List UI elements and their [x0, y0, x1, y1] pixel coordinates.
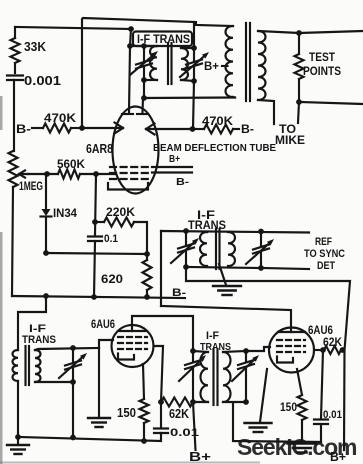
svg-text:DET: DET	[317, 260, 335, 272]
label B+ right	[330, 450, 346, 464]
trimmer cap T3 primary	[171, 231, 199, 267]
svg-text:62K: 62K	[323, 337, 343, 349]
cathode 6AR8	[108, 183, 148, 190]
transformer T5 secondary winding	[223, 352, 231, 402]
wire T2 primary bottom	[233, 96, 235, 99]
wire B+ tap	[222, 65, 228, 67]
wire T5 primary bottom	[193, 401, 208, 403]
label I-F TRANS 4	[22, 323, 56, 346]
label 0.01 #2	[323, 409, 342, 421]
junction test points top	[296, 30, 302, 36]
wire mike stub 2	[298, 102, 299, 123]
transformer T2 secondary winding	[258, 31, 266, 100]
capacitor 0.01 #2	[314, 350, 328, 442]
label 1MEG	[19, 181, 43, 193]
junction T4 cap bottom	[70, 379, 76, 385]
grid dashes 6AU6 #2	[277, 340, 305, 352]
wire T3 top	[161, 231, 309, 233]
label 6AR8	[86, 142, 113, 156]
wire T2 secondary top to test points	[258, 31, 363, 33]
svg-text:BEAM DEFLECTION TUBE: BEAM DEFLECTION TUBE	[153, 142, 276, 154]
wire B- rail right	[186, 267, 350, 350]
transformer T1 primary winding	[150, 46, 157, 80]
wire T4 secondary top	[35, 348, 99, 350]
ground T3 center tap	[213, 264, 241, 295]
resistor 220K	[95, 218, 147, 255]
transformer T4 primary winding	[13, 350, 18, 381]
label 33K	[24, 40, 46, 54]
wire T1 secondary top	[181, 47, 194, 49]
supply stub B- 6AR8	[152, 173, 192, 189]
plate left 6AR8	[122, 113, 133, 115]
junction dot node A end	[128, 26, 134, 32]
label 150 #2	[280, 400, 297, 414]
svg-text:6AU6: 6AU6	[308, 323, 333, 337]
wire plate 6AU6 #1 to T5	[132, 316, 193, 351]
junction T3 cap1 bottom	[183, 264, 189, 270]
junction 62K/0.01 node	[158, 399, 164, 405]
junction T5 cap2 top	[243, 348, 249, 354]
svg-text:560K: 560K	[57, 157, 85, 171]
wire detector to T4 primary	[18, 296, 46, 350]
junction T1 primary top left	[127, 43, 133, 49]
wire left deflection electrode	[82, 127, 123, 129]
capacitor 0.001	[7, 76, 23, 152]
label 0.01 #1	[170, 427, 199, 439]
cathode 6AU6 #2	[277, 357, 293, 363]
wire T5 secondary top	[223, 351, 246, 352]
svg-text:470K: 470K	[44, 111, 76, 125]
junction T5 primary bottom	[190, 399, 196, 405]
svg-text:I-F TRANS: I-F TRANS	[137, 34, 190, 46]
label 470K left	[44, 111, 76, 125]
svg-text:6AU6: 6AU6	[91, 317, 115, 331]
svg-text:B-: B-	[176, 177, 189, 188]
svg-text:REF: REF	[315, 236, 332, 248]
svg-text:1MEG: 1MEG	[19, 181, 43, 193]
ground grid 6AU6 #1	[88, 348, 110, 427]
svg-text:0.001: 0.001	[24, 74, 61, 88]
junction 150 bottom	[141, 438, 147, 444]
junction T5 primary top	[190, 348, 196, 354]
wire grid jog 6AU6 #1	[99, 340, 113, 348]
wire node A down to T1	[130, 29, 131, 46]
label REF TO SYNC DET	[304, 236, 345, 272]
svg-text:POINTS: POINTS	[303, 66, 341, 78]
transformer T1 secondary winding	[181, 48, 188, 80]
wire grid 6AR8	[96, 173, 116, 175]
plate 6AU6 #1	[119, 330, 147, 332]
junction 620 bottom	[144, 294, 150, 300]
pot wiper arrow	[19, 170, 28, 177]
wire cathode 6AU6 #1	[154, 346, 164, 402]
transformer T4 secondary winding	[35, 350, 40, 382]
svg-text:B-: B-	[241, 122, 254, 136]
junction T1 cap1 bottom	[141, 77, 147, 83]
wire left plate feed	[129, 46, 130, 112]
junction 560K/diode	[44, 171, 50, 177]
wire right plate and output primary bottom	[143, 80, 236, 112]
capacitor 0.1	[88, 237, 102, 298]
wire T3 bottom	[186, 267, 261, 268]
wire rail to B+ bottom right	[343, 350, 346, 450]
trimmer cap T4	[59, 348, 87, 382]
junction T1 cap2 bottom	[191, 78, 197, 84]
label B+ tap	[204, 59, 219, 73]
capacitor 0.01 #1	[154, 402, 168, 433]
svg-text:TO SYNC: TO SYNC	[304, 248, 345, 260]
junction 560K/grid	[93, 171, 99, 177]
svg-text:6AR8: 6AR8	[86, 142, 113, 156]
scan artifact bottom edge	[0, 462, 260, 464]
wire T3 left edge down	[160, 231, 162, 306]
junction T3 cap1 top	[183, 228, 189, 234]
trimmer cap T1 primary	[130, 46, 158, 80]
trimmer cap T5 secondary	[232, 351, 259, 402]
junction 0.1 bottom	[91, 294, 97, 300]
resistor 150 #1	[140, 364, 149, 441]
wire T4 cap bottom down	[72, 382, 74, 437]
label 6AU6 #2	[308, 323, 333, 337]
transformer T3 core	[216, 229, 220, 269]
grid dashes 6AR8	[110, 167, 150, 179]
resistor 150 #2	[297, 369, 307, 442]
junction 220K left	[92, 219, 98, 225]
resistor 620	[143, 254, 152, 297]
tube 6AR8 envelope	[113, 107, 159, 194]
wire cathode bus bottom left	[18, 433, 161, 441]
svg-text:470K: 470K	[202, 114, 233, 128]
wire cathode 6AU6 #2	[314, 349, 324, 351]
diode 1N34	[41, 174, 52, 253]
resistor 62K #1	[161, 398, 193, 407]
label IN34	[53, 206, 77, 220]
wire ref stub bottom	[261, 268, 309, 269]
tube 6AU6 #1 envelope	[112, 325, 154, 367]
junction diode bottom	[43, 250, 49, 256]
svg-text:150: 150	[280, 400, 297, 414]
junction 62K #2 right	[340, 347, 346, 353]
wire grid 6AU6 #2	[246, 347, 270, 351]
label 6AU6 #1	[91, 317, 115, 331]
svg-text:TRANS: TRANS	[188, 220, 226, 232]
junction T4 cap top	[70, 345, 76, 351]
label B- right	[241, 122, 254, 136]
potentiometer 1MEG	[9, 151, 18, 296]
label TEST POINTS	[303, 52, 341, 78]
wire test points bottom	[299, 102, 363, 104]
svg-text:150: 150	[117, 405, 136, 420]
resistor 470K right	[193, 125, 234, 134]
supply stub B+ 6AR8	[152, 154, 192, 167]
wire T5 secondary bottom	[223, 401, 246, 403]
label BEAM DEFLECTION TUBE	[153, 142, 276, 154]
wire top-left horizontal (node A)	[15, 27, 131, 29]
label 560K	[57, 157, 85, 171]
wire 470K right to B-	[233, 128, 239, 130]
label B+ T5	[189, 449, 212, 464]
svg-text:B-: B-	[172, 287, 186, 299]
wire 560K junction down	[95, 174, 96, 235]
junction T5 cap2 bottom	[243, 399, 249, 405]
wire T1 secondary bottom	[181, 80, 194, 81]
junction detector node right	[144, 251, 150, 257]
tube 6AU6 #2 envelope	[269, 328, 314, 373]
svg-text:B+: B+	[169, 154, 180, 165]
junction T1 cap1 top	[141, 43, 147, 49]
label I-F TRANS 2	[188, 210, 226, 232]
svg-text:SeekIC.com: SeekIC.com	[237, 434, 357, 460]
label box I-F TRANS 1	[133, 32, 192, 47]
watermark SeekIC.com	[237, 434, 357, 460]
resistor 560K	[28, 170, 96, 179]
svg-text:IN34: IN34	[53, 206, 77, 220]
wire T1 primary bottom	[144, 79, 157, 81]
resistor 33K	[11, 27, 20, 73]
label I-F TRANS 5	[200, 330, 231, 353]
wire bottom of detector section	[12, 296, 185, 298]
junction T4 cap line bottom	[70, 435, 76, 441]
wire T4 primary bottom down	[17, 381, 19, 437]
junction cathode node #2	[320, 347, 326, 353]
junction T4 primary ground	[15, 434, 21, 440]
wire T5 primary top	[193, 351, 208, 352]
svg-text:620: 620	[101, 272, 123, 286]
scan artifact left edge	[0, 96, 3, 464]
transformer T5 core	[214, 349, 218, 405]
junction right plate node	[141, 95, 147, 101]
trimmer cap T1 secondary	[180, 22, 209, 81]
wire tall left loop (W1)	[82, 18, 233, 128]
svg-text:33K: 33K	[24, 40, 46, 54]
trimmer cap T3 secondary	[246, 232, 274, 269]
plate right 6AR8	[137, 113, 148, 115]
label B- detector	[172, 287, 186, 299]
wire plate 6AU6 #2	[161, 306, 291, 332]
transformer T2 primary winding	[226, 26, 234, 97]
resistor test points	[295, 33, 304, 102]
wire T2 secondary bottom to mike stub	[258, 100, 274, 124]
junction test points bottom	[296, 99, 302, 105]
junction 470K/deflection-wire	[79, 125, 85, 131]
transformer T1 core	[168, 43, 172, 84]
stub B+ T5	[193, 402, 196, 450]
svg-text:TRANS: TRANS	[22, 334, 56, 346]
ground suppressor 6AU6 #2	[245, 369, 272, 432]
label 620	[101, 272, 123, 286]
wire T1 secondary down to deflection	[193, 81, 194, 129]
wire T5 center down	[233, 404, 321, 442]
deflection plate right (arrowhead)	[146, 124, 155, 135]
transformer T4 core	[26, 346, 30, 385]
label 220K	[106, 205, 135, 219]
transformer T5 primary winding	[201, 352, 209, 402]
plate 6AU6 #2	[278, 331, 305, 333]
deflection plate left (arrowhead)	[115, 123, 124, 134]
label 62K #1	[169, 407, 189, 421]
junction T3 cap2 bottom	[258, 265, 264, 271]
label 0.001	[24, 74, 61, 88]
junction T1 cap2 top	[191, 45, 197, 51]
junction right deflection node	[190, 126, 196, 132]
svg-text:TEST: TEST	[309, 52, 335, 64]
trimmer cap T5 primary	[179, 351, 206, 402]
transformer T3 primary winding	[200, 232, 207, 267]
junction T3 cap2 top	[258, 229, 264, 235]
wire B- to 470K	[32, 127, 43, 129]
ground 150 #2	[288, 444, 317, 453]
wire T1 primary top	[130, 45, 157, 47]
resistor 62K #2	[324, 346, 341, 354]
resistor 470K left	[43, 124, 82, 133]
transformer T2 core	[246, 23, 250, 101]
svg-text:220K: 220K	[106, 205, 135, 219]
svg-text:62K: 62K	[169, 407, 189, 421]
label B- left	[16, 122, 31, 136]
svg-text:0.1: 0.1	[104, 233, 118, 245]
svg-text:0.01: 0.01	[323, 409, 342, 421]
label 62K #2	[323, 337, 343, 349]
label TO MIKE	[275, 124, 305, 147]
grid dashes 6AU6 #1	[118, 337, 147, 349]
junction diode line crossing	[43, 293, 49, 299]
svg-text:B-: B-	[16, 122, 31, 136]
label 0.1	[104, 233, 118, 245]
label 150 #1	[117, 405, 136, 420]
svg-text:B+: B+	[204, 59, 219, 73]
wire diode junction to 620	[46, 253, 147, 254]
label 470K right	[202, 114, 233, 128]
ground T4	[7, 437, 29, 454]
wire right deflection electrode	[146, 128, 193, 130]
cathode 6AU6 #1	[118, 354, 134, 360]
svg-text:MIKE: MIKE	[275, 135, 305, 147]
wire T4 secondary bottom	[35, 381, 73, 383]
transformer T3 secondary winding	[228, 232, 235, 266]
